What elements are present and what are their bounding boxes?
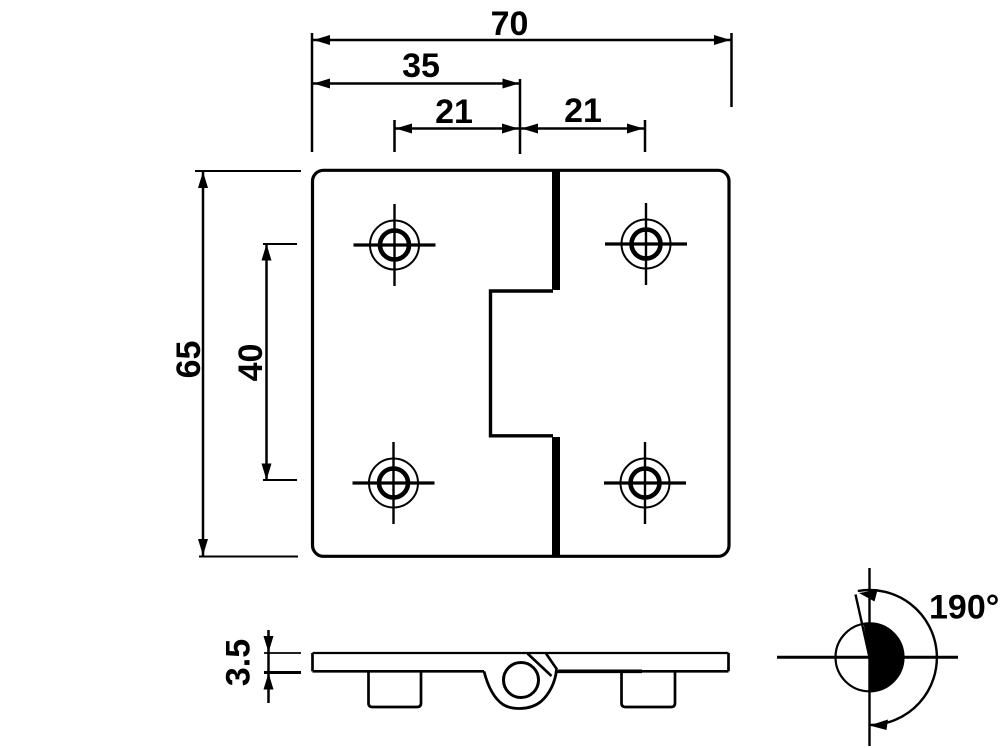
svg-text:3.5: 3.5 (219, 639, 257, 686)
svg-text:21: 21 (564, 92, 602, 130)
svg-text:190°: 190° (929, 589, 999, 627)
svg-text:21: 21 (435, 93, 473, 131)
svg-text:70: 70 (491, 5, 529, 43)
svg-text:40: 40 (232, 344, 270, 382)
svg-text:35: 35 (402, 47, 440, 85)
svg-text:65: 65 (170, 341, 208, 379)
